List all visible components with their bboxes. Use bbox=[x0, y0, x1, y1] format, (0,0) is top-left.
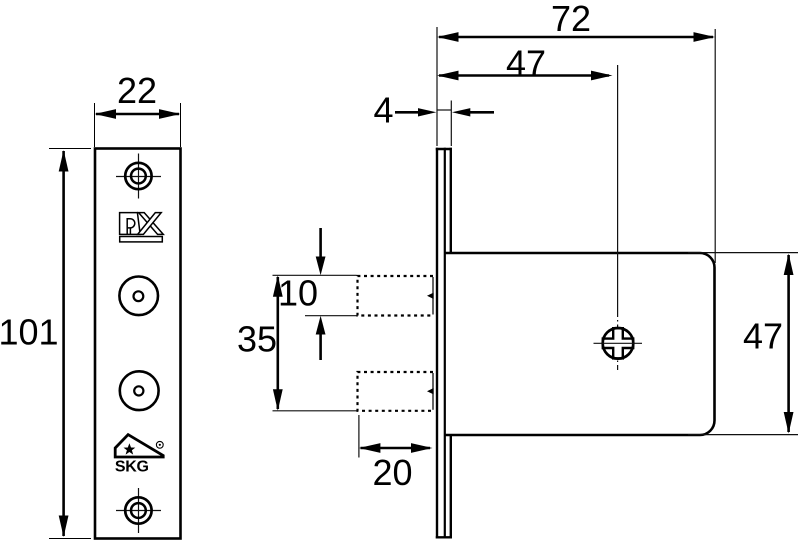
dimension 72 extension line right bbox=[714, 29, 716, 263]
svg-text:10: 10 bbox=[278, 273, 318, 314]
SKG star bbox=[124, 443, 136, 454]
dimension 47 right extension top bbox=[688, 252, 798, 254]
faceplate side right edge lower segment bbox=[450, 435, 452, 539]
faceplate side top edge bbox=[436, 148, 452, 150]
svg-text:101: 101 bbox=[0, 312, 59, 353]
faceplate side left edge bbox=[436, 148, 438, 539]
svg-text:20: 20 bbox=[372, 452, 412, 493]
lock body side view bbox=[445, 253, 715, 435]
bolt lower arrow bbox=[427, 388, 434, 394]
screw hole top crosshair bbox=[116, 154, 161, 199]
svg-text:47: 47 bbox=[506, 42, 546, 83]
dimension 47 right arrow line bbox=[787, 255, 790, 432]
dimension 20 extension line bbox=[358, 415, 360, 458]
dimension 47 top arrow line bbox=[439, 74, 609, 77]
faceplate side right edge upper segment bbox=[450, 148, 452, 253]
dimension 72 arrow line bbox=[439, 36, 713, 39]
screw circle outline bbox=[603, 328, 634, 359]
svg-text:47: 47 bbox=[743, 316, 783, 357]
dimension 35 extension line bottom bbox=[273, 410, 357, 412]
dimension 10 extension line bottom bbox=[305, 315, 357, 317]
dimension 22 extension lines bbox=[95, 103, 181, 147]
dimension 4 left arrow bbox=[395, 111, 430, 114]
faceplate side bottom edge bbox=[436, 536, 452, 538]
dimension 4 tick line bbox=[437, 109, 451, 111]
dimension 10 extension line top bbox=[273, 274, 357, 276]
faceplate front view bbox=[95, 149, 181, 539]
svg-text:22: 22 bbox=[117, 70, 157, 111]
dimension 10 lower arrow bbox=[319, 322, 322, 360]
bolt upper end tick bbox=[432, 277, 434, 315]
svg-text:72: 72 bbox=[551, 0, 591, 39]
faceplate side middle line bbox=[444, 148, 446, 539]
svg-text:4: 4 bbox=[373, 90, 393, 131]
dimension 101 extension lines bbox=[49, 149, 91, 539]
dimension 22 arrow line bbox=[96, 113, 179, 116]
svg-text:SKG: SKG bbox=[115, 458, 149, 475]
hole circle 1 bbox=[119, 277, 158, 316]
hole circle 2 bbox=[120, 371, 159, 410]
svg-text:35: 35 bbox=[237, 319, 277, 360]
faceplate side view fill bbox=[436, 148, 452, 539]
screw centerline horizontal bbox=[594, 342, 643, 344]
dimension 20 arrow line bbox=[361, 447, 431, 450]
dimension 47 right extension bottom bbox=[688, 434, 798, 436]
dimension 4 right arrow bbox=[458, 111, 494, 114]
dimension 10 upper arrow bbox=[319, 228, 322, 269]
dimension 72 extension line left bbox=[436, 27, 438, 146]
screw in body bbox=[603, 328, 634, 359]
dimension 35 arrow line bbox=[276, 277, 279, 409]
DX logo bbox=[120, 213, 164, 242]
dimension 101 arrow line bbox=[62, 151, 65, 536]
screw hole bottom bbox=[125, 497, 151, 523]
dimension 4 extension line bbox=[450, 101, 452, 147]
screw hole bottom crosshair bbox=[116, 488, 161, 533]
bolt upper (dashed) bbox=[358, 276, 434, 316]
bolt lower (dashed) bbox=[358, 372, 434, 411]
bolt upper arrow bbox=[427, 293, 434, 299]
screw centerline vertical (extension of dim 47 top) bbox=[617, 65, 619, 311]
screw cross bbox=[603, 328, 633, 358]
screw hole top bbox=[125, 163, 151, 189]
SKG registered mark bbox=[156, 441, 163, 448]
bolt lower end tick bbox=[432, 373, 434, 410]
SKG logo roof bbox=[115, 435, 163, 457]
